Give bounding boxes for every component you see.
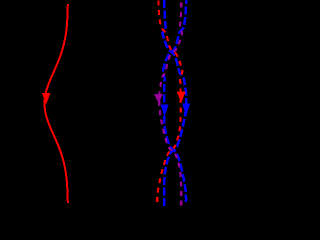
- left red arrowhead: [43, 94, 49, 102]
- phase-portrait style figure on black background: [0, 0, 218, 219]
- blue arrowhead on trajectory A: [183, 104, 189, 114]
- red arrowhead on trajectory A: [178, 92, 185, 101]
- purple arrowhead on trajectory B: [155, 95, 162, 102]
- right panel: blue dashed trajectory A (companion of red): [162, 0, 186, 208]
- right panel: red dashed trajectory A: [157, 1, 182, 205]
- left solid red solution curve: [45, 4, 68, 203]
- blue arrowhead on trajectory B: [162, 105, 168, 114]
- right panel: blue dashed trajectory B (companion of purple): [163, 0, 186, 202]
- right panel: purple dashed trajectory B: [159, 1, 182, 207]
